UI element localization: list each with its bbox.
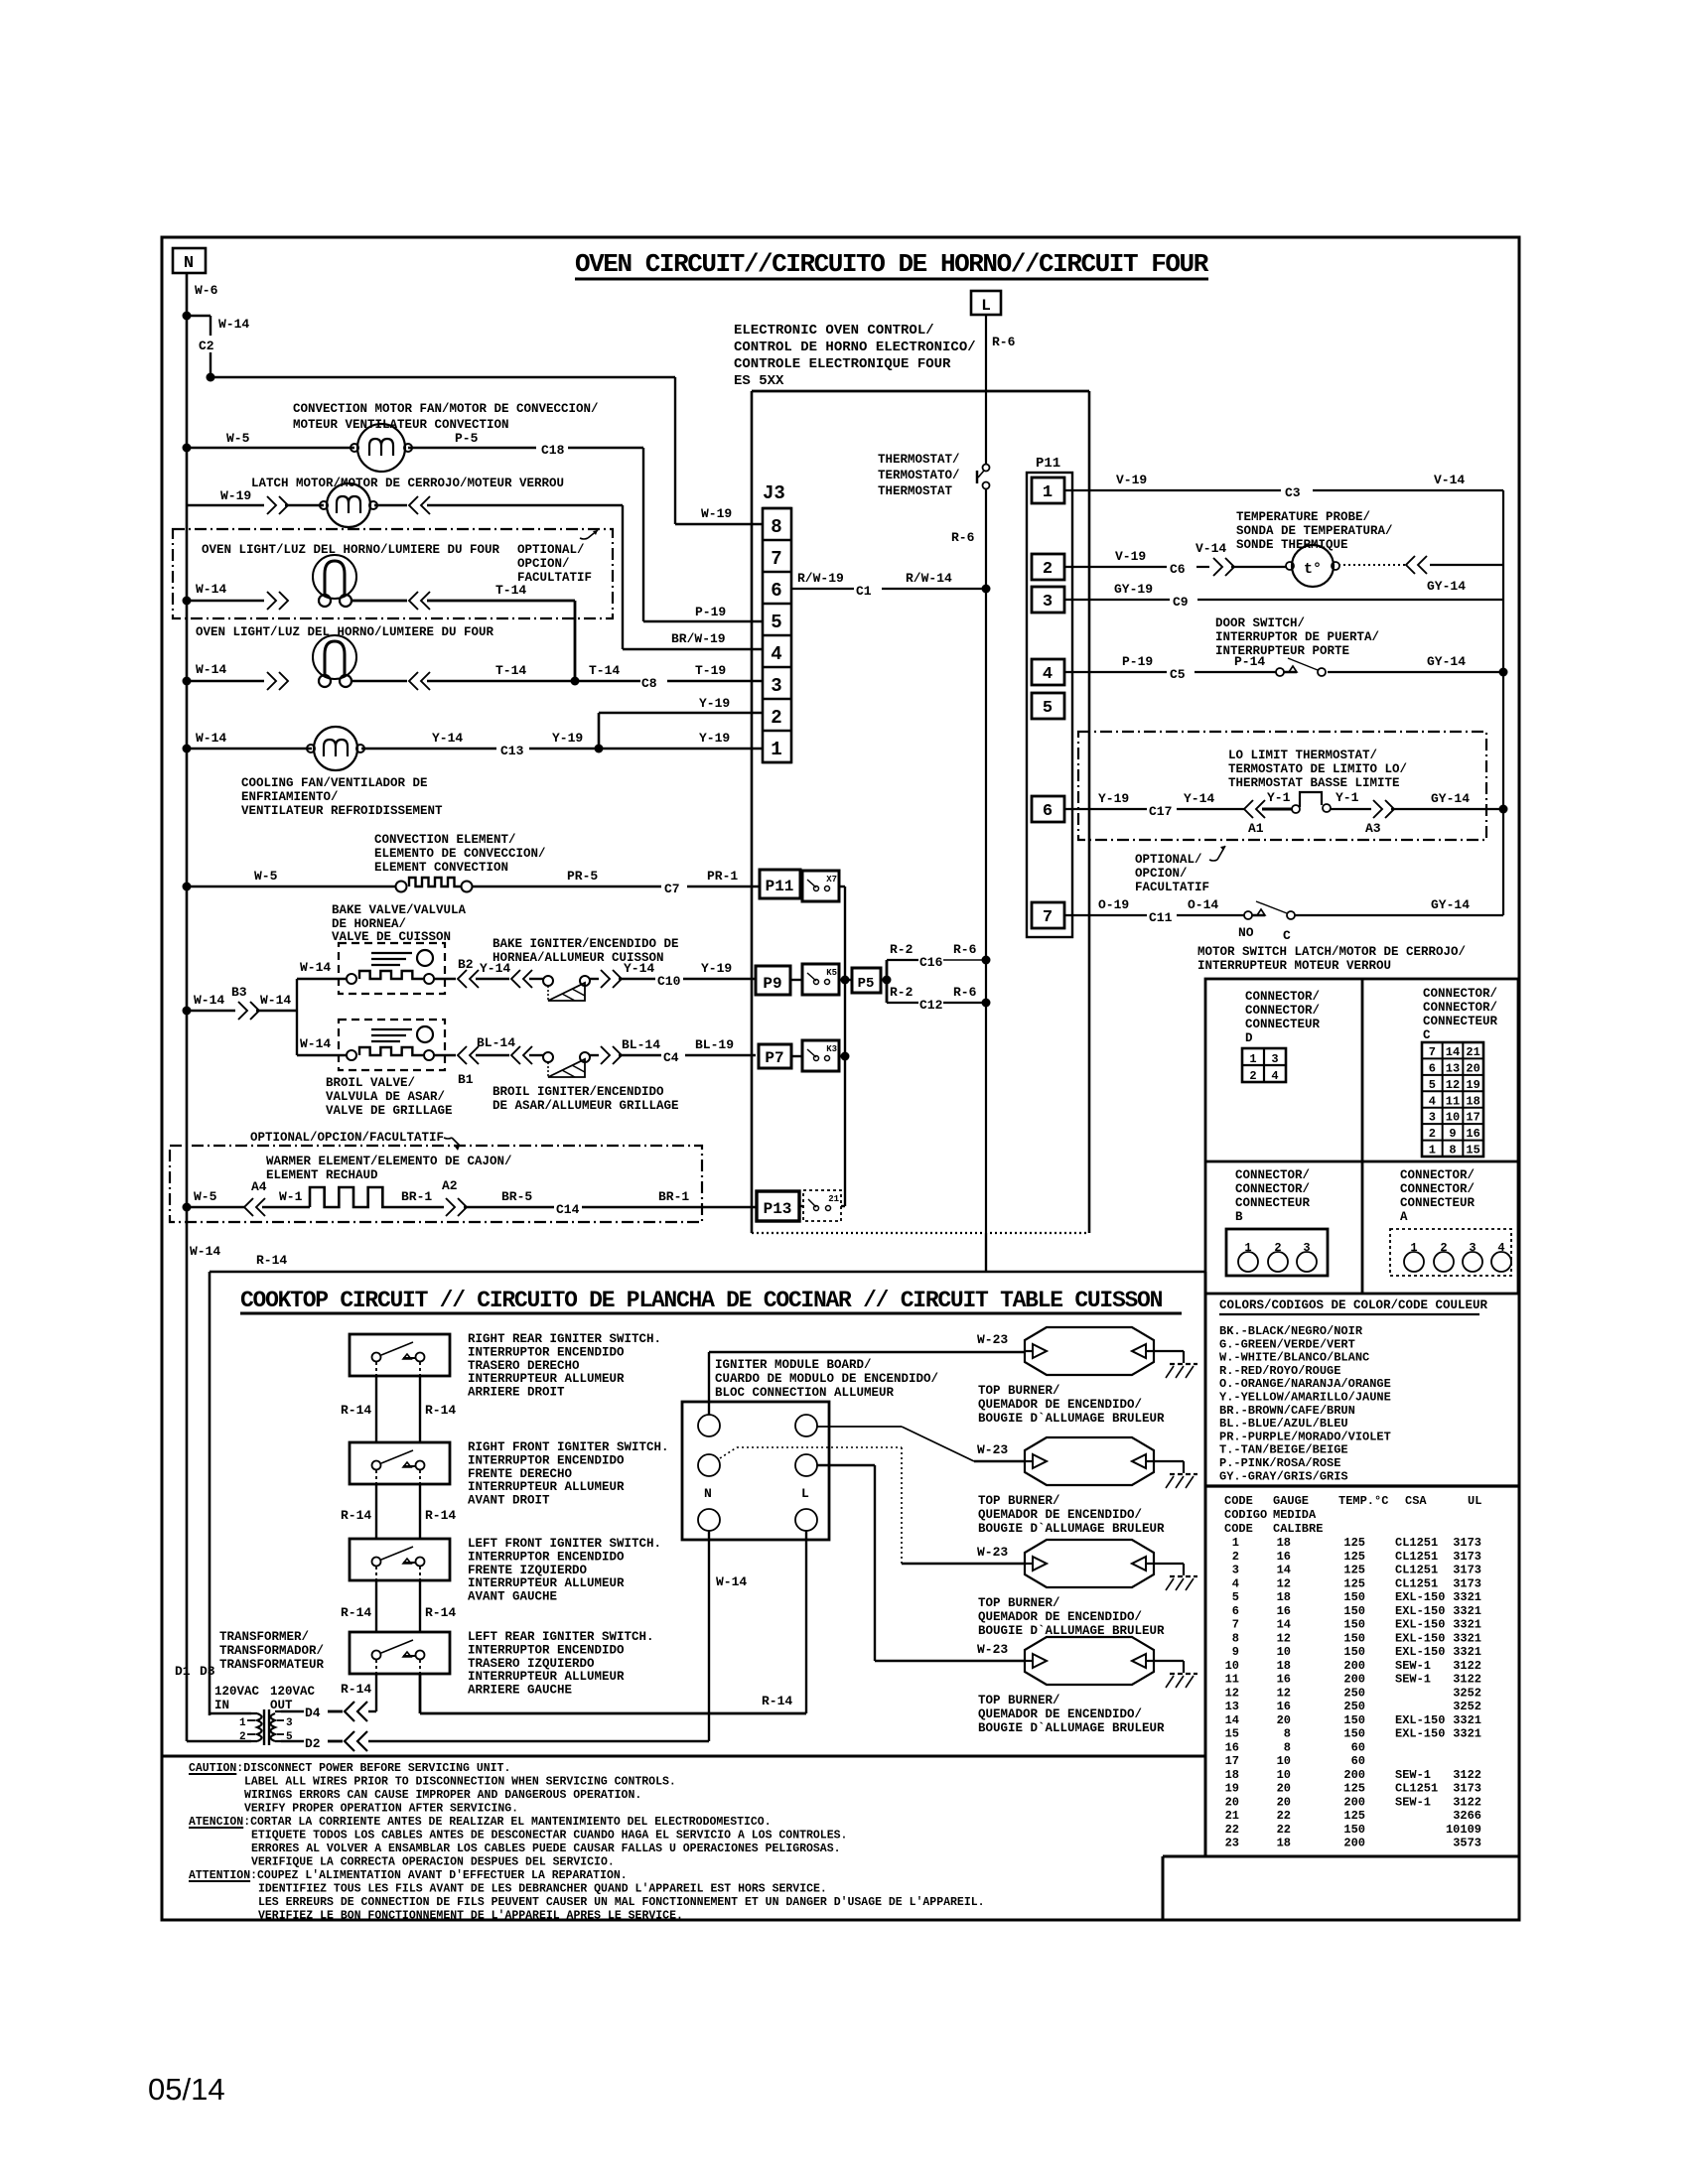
svg-text:3122: 3122 bbox=[1453, 1673, 1481, 1687]
svg-text:16: 16 bbox=[1277, 1673, 1291, 1687]
svg-text:200: 200 bbox=[1343, 1795, 1365, 1809]
label 05/14 bbox=[148, 2072, 225, 2107]
label V-19 pin1 bbox=[1116, 473, 1147, 487]
svg-text:C7: C7 bbox=[664, 882, 680, 896]
svg-text:6: 6 bbox=[1043, 802, 1053, 821]
caution notes bbox=[189, 1762, 985, 1923]
svg-text:QUEMADOR DE ENCENDIDO/: QUEMADOR DE ENCENDIDO/ bbox=[978, 1610, 1142, 1624]
svg-text:C1: C1 bbox=[856, 584, 872, 599]
label R-2 C12 bbox=[890, 985, 914, 1000]
label broil igniter bbox=[492, 1085, 679, 1113]
label C9 bbox=[1173, 595, 1189, 610]
label oven light 2 bbox=[196, 625, 494, 639]
label P-19 at J3 pin5 bbox=[695, 605, 726, 619]
wire to broil valve bbox=[297, 1054, 347, 1056]
wire P-19 pin4 bbox=[1064, 671, 1276, 673]
svg-text:3173: 3173 bbox=[1453, 1576, 1481, 1590]
svg-text:2: 2 bbox=[771, 707, 781, 729]
conv element contact R bbox=[462, 882, 473, 892]
svg-text:TOP BURNER/: TOP BURNER/ bbox=[978, 1694, 1060, 1707]
svg-text:W-14: W-14 bbox=[218, 317, 249, 332]
svg-text:EXL-150: EXL-150 bbox=[1395, 1618, 1445, 1632]
wire PR-1 to P11 bbox=[687, 886, 760, 887]
wire probe return bbox=[1502, 490, 1504, 915]
svg-text:EXL-150: EXL-150 bbox=[1395, 1645, 1445, 1659]
svg-text:C8: C8 bbox=[641, 676, 657, 691]
svg-text:3321: 3321 bbox=[1453, 1618, 1481, 1632]
convection element R1 bbox=[409, 878, 461, 887]
wire gauge table bbox=[1224, 1494, 1481, 1850]
wire D4 to rail bbox=[368, 1710, 376, 1712]
svg-text:3122: 3122 bbox=[1453, 1659, 1481, 1673]
relay 21 bbox=[803, 1190, 841, 1221]
colors box divider bbox=[1205, 1484, 1518, 1487]
label A3 bbox=[1365, 821, 1381, 836]
svg-text:A2: A2 bbox=[442, 1178, 458, 1193]
svg-text:WARMER ELEMENT/ELEMENTO DE CAJ: WARMER ELEMENT/ELEMENTO DE CAJON/ bbox=[266, 1155, 512, 1168]
svg-text:ERRORES AL VOLVER A ENSAMBLAR: ERRORES AL VOLVER A ENSAMBLAR LOS CABLES… bbox=[251, 1843, 841, 1855]
label top burner 3 bbox=[978, 1596, 1165, 1638]
label tap 1 bbox=[239, 1717, 246, 1729]
svg-text:D4: D4 bbox=[305, 1706, 321, 1720]
svg-text:13: 13 bbox=[1446, 1061, 1460, 1075]
wire W-5 fan bbox=[187, 447, 354, 449]
connector broil 3 bbox=[601, 1046, 622, 1064]
svg-text:4: 4 bbox=[1232, 1576, 1239, 1590]
wire lo-limit out bbox=[1331, 808, 1371, 810]
svg-text:BROIL VALVE/: BROIL VALVE/ bbox=[326, 1076, 415, 1090]
svg-text:15: 15 bbox=[1225, 1727, 1239, 1741]
wire Y-19 to J3 pin1 bbox=[599, 748, 763, 750]
svg-text:EXL-150: EXL-150 bbox=[1395, 1727, 1445, 1741]
svg-text:14: 14 bbox=[1225, 1713, 1239, 1727]
svg-text:OVEN CIRCUIT//CIRCUITO DE HORN: OVEN CIRCUIT//CIRCUITO DE HORNO//CIRCUIT… bbox=[575, 249, 1209, 279]
label B1 bbox=[458, 1072, 474, 1087]
svg-text:150: 150 bbox=[1343, 1590, 1365, 1604]
junction P5 out bbox=[883, 976, 892, 985]
label D4 bbox=[305, 1706, 321, 1720]
label O-14 bbox=[1188, 897, 1218, 912]
connector D grid bbox=[1242, 1048, 1286, 1083]
label W-19 at J3 pin8 bbox=[701, 506, 732, 521]
module pin L bbox=[795, 1509, 817, 1531]
svg-text:6: 6 bbox=[1232, 1604, 1239, 1618]
svg-text:20: 20 bbox=[1225, 1795, 1239, 1809]
svg-text:23: 23 bbox=[1225, 1837, 1239, 1850]
title OVEN CIRCUIT bbox=[575, 249, 1209, 279]
label GY-14 pin7 bbox=[1431, 897, 1470, 912]
wire W-14 light1 bbox=[187, 600, 264, 602]
svg-text:ELEMENT RECHAUD: ELEMENT RECHAUD bbox=[266, 1168, 378, 1182]
svg-text:INTERRUPTEUR ALLUMEUR: INTERRUPTEUR ALLUMEUR bbox=[468, 1372, 625, 1386]
svg-text:IDENTIFIEZ TOUS LES FILS AVANT: IDENTIFIEZ TOUS LES FILS AVANT DE LES DE… bbox=[258, 1883, 827, 1896]
svg-text:R-6: R-6 bbox=[953, 985, 977, 1000]
junction light2 bbox=[183, 677, 192, 686]
svg-text:INTERRUPTEUR ALLUMEUR: INTERRUPTEUR ALLUMEUR bbox=[468, 1480, 625, 1494]
svg-text:EXL-150: EXL-150 bbox=[1395, 1631, 1445, 1645]
connector probe right bbox=[1406, 556, 1427, 574]
svg-text:VERIFIEZ LE BON FONCTIONNEMENT: VERIFIEZ LE BON FONCTIONNEMENT DE L'APPA… bbox=[258, 1910, 683, 1923]
wire C13 bbox=[529, 748, 599, 750]
junction light1 bbox=[183, 597, 192, 606]
svg-text:PR-5: PR-5 bbox=[567, 869, 598, 884]
junction cooling bbox=[183, 745, 192, 753]
label GY-14 pin3 bbox=[1427, 579, 1466, 594]
P11 pin 2 box bbox=[1032, 554, 1064, 580]
wire P7-K3 bbox=[791, 1055, 802, 1057]
svg-text:PR-1: PR-1 bbox=[707, 869, 738, 884]
wire Y-14 cooling bbox=[361, 748, 496, 750]
svg-text:18: 18 bbox=[1466, 1094, 1479, 1108]
connector warmer out bbox=[446, 1198, 467, 1216]
warmer element R2 bbox=[310, 1187, 397, 1207]
svg-text:W-14: W-14 bbox=[716, 1574, 747, 1589]
svg-text:R/W-19: R/W-19 bbox=[797, 571, 844, 586]
svg-text:MEDIDA: MEDIDA bbox=[1273, 1508, 1317, 1522]
svg-text:1: 1 bbox=[1043, 483, 1053, 502]
svg-text:L: L bbox=[981, 297, 991, 315]
label C8 bbox=[641, 676, 657, 691]
label connector D bbox=[1245, 990, 1321, 1045]
label temperature probe bbox=[1236, 510, 1393, 552]
label Y-14 bake r bbox=[624, 961, 654, 976]
svg-text:P-5: P-5 bbox=[455, 431, 479, 446]
svg-text:125: 125 bbox=[1343, 1564, 1365, 1577]
svg-text:120VAC: 120VAC bbox=[270, 1685, 316, 1699]
label V-14 probe bbox=[1196, 541, 1226, 556]
svg-text:150: 150 bbox=[1343, 1727, 1365, 1741]
label C13 bbox=[500, 744, 524, 758]
svg-text:CONVECTION MOTOR FAN/MOTOR DE: CONVECTION MOTOR FAN/MOTOR DE CONVECCION… bbox=[293, 402, 599, 416]
svg-text:TRASERO DERECHO: TRASERO DERECHO bbox=[468, 1359, 580, 1373]
svg-text:C16: C16 bbox=[919, 955, 943, 970]
label GY-19 bbox=[1114, 582, 1153, 597]
connector A pins bbox=[1390, 1229, 1511, 1276]
svg-text:RIGHT FRONT IGNITER SWITCH.: RIGHT FRONT IGNITER SWITCH. bbox=[468, 1440, 669, 1454]
label oven light 1 bbox=[202, 543, 500, 557]
svg-text:t°: t° bbox=[1304, 561, 1322, 578]
connector warmer in bbox=[244, 1198, 265, 1216]
label motor switch latch bbox=[1197, 945, 1466, 973]
label bake igniter bbox=[492, 937, 679, 965]
connector D2 bbox=[345, 1731, 367, 1751]
label J3 bbox=[763, 482, 785, 504]
wire probe dotted bbox=[1338, 564, 1406, 566]
wire P13-21 bbox=[799, 1205, 803, 1207]
bottom-right box top edge bbox=[1163, 1855, 1518, 1858]
svg-text:SEW-1: SEW-1 bbox=[1395, 1795, 1431, 1809]
svg-text:3: 3 bbox=[1232, 1564, 1239, 1577]
temperature probe T1 bbox=[1286, 545, 1339, 587]
label thermostat bbox=[878, 453, 960, 498]
label W-5 fan bbox=[226, 431, 250, 446]
svg-text:C6: C6 bbox=[1170, 562, 1186, 577]
svg-text:DE HORNEA/: DE HORNEA/ bbox=[332, 917, 406, 931]
svg-text:W-5: W-5 bbox=[194, 1189, 217, 1204]
svg-text:BR-1: BR-1 bbox=[658, 1189, 689, 1204]
wire Y-14 C10 bbox=[619, 978, 756, 980]
wire D2 bbox=[281, 1740, 343, 1742]
svg-text:R-6: R-6 bbox=[992, 335, 1016, 349]
svg-text:FACULTATIF: FACULTATIF bbox=[1135, 881, 1209, 894]
wire R-6 from L bbox=[985, 315, 987, 464]
svg-text:R/W-14: R/W-14 bbox=[906, 571, 952, 586]
svg-text:2: 2 bbox=[1232, 1550, 1239, 1564]
svg-text:CONTROL DE HORNO ELECTRONICO/: CONTROL DE HORNO ELECTRONICO/ bbox=[734, 340, 976, 355]
label C1 bbox=[856, 584, 872, 599]
label C5 bbox=[1170, 667, 1186, 682]
svg-text:C4: C4 bbox=[663, 1050, 679, 1065]
svg-text:GY-14: GY-14 bbox=[1427, 654, 1466, 669]
label R-14 a1 bbox=[341, 1403, 371, 1418]
svg-text:P7: P7 bbox=[765, 1049, 783, 1067]
P11 pin 1 box bbox=[1032, 478, 1064, 503]
svg-text:150: 150 bbox=[1343, 1823, 1365, 1837]
svg-text:C10: C10 bbox=[657, 974, 681, 989]
svg-text:14: 14 bbox=[1277, 1564, 1291, 1577]
EOC box outline bbox=[752, 391, 1089, 1233]
igniter switch right rear igniter switch S4 bbox=[350, 1334, 450, 1376]
svg-text:05/14: 05/14 bbox=[148, 2072, 225, 2107]
P5 plug box bbox=[852, 968, 881, 993]
svg-text:UL: UL bbox=[1468, 1494, 1481, 1508]
broil valve element bbox=[347, 1047, 434, 1060]
label BR/W-19 at J3 pin4 bbox=[671, 631, 726, 646]
svg-text:200: 200 bbox=[1343, 1659, 1365, 1673]
svg-text:120VAC: 120VAC bbox=[214, 1685, 260, 1699]
svg-text:3321: 3321 bbox=[1453, 1631, 1481, 1645]
junction conv element bbox=[183, 883, 192, 891]
wire W-14 light2 bbox=[187, 680, 264, 682]
svg-text:20: 20 bbox=[1466, 1061, 1479, 1075]
svg-text:12: 12 bbox=[1277, 1576, 1291, 1590]
svg-text:W-23: W-23 bbox=[977, 1442, 1008, 1457]
junction warmer bbox=[183, 1203, 192, 1212]
svg-text:150: 150 bbox=[1343, 1631, 1365, 1645]
label right front igniter switch S5 bbox=[468, 1440, 669, 1508]
label C6 bbox=[1170, 562, 1186, 577]
svg-text:5: 5 bbox=[1232, 1590, 1239, 1604]
svg-text:W-14: W-14 bbox=[196, 731, 226, 746]
label T-14 light2 bbox=[495, 663, 526, 678]
junction fan row bbox=[183, 444, 192, 453]
igniter switch left rear igniter switch S7 bbox=[350, 1632, 450, 1674]
svg-text:9: 9 bbox=[1449, 1127, 1456, 1141]
svg-text:CONNECTEUR: CONNECTEUR bbox=[1423, 1015, 1498, 1028]
P11 plug box bbox=[760, 870, 800, 898]
wire R-6 to cooktop bbox=[985, 1233, 987, 1272]
wire R-6 down bbox=[985, 489, 987, 1233]
wire K3 to bus bbox=[839, 1055, 845, 1057]
svg-text:R-14: R-14 bbox=[762, 1694, 792, 1708]
wire relay21 to bus bbox=[841, 1205, 845, 1207]
svg-text:W-5: W-5 bbox=[254, 869, 278, 884]
svg-text:P11: P11 bbox=[766, 878, 794, 895]
wire P9-K5 bbox=[790, 979, 802, 981]
connector latch in bbox=[267, 496, 288, 514]
svg-text:CALIBRE: CALIBRE bbox=[1273, 1522, 1323, 1536]
igniter switch left front igniter switch S6 bbox=[350, 1539, 450, 1580]
wire Y-19 to J3 pin2 bbox=[599, 713, 763, 749]
svg-text:22: 22 bbox=[1277, 1809, 1291, 1823]
optional box warmer bbox=[170, 1146, 702, 1222]
svg-text:SONDA DE TEMPERATURA/: SONDA DE TEMPERATURA/ bbox=[1236, 524, 1393, 538]
svg-text:GY.-GRAY/GRIS/GRIS: GY.-GRAY/GRIS/GRIS bbox=[1219, 1469, 1348, 1483]
wire D4 bbox=[281, 1710, 343, 1712]
squiggle warmer bbox=[444, 1138, 460, 1151]
svg-text:R-14: R-14 bbox=[256, 1253, 287, 1268]
svg-text:LEFT FRONT IGNITER SWITCH.: LEFT FRONT IGNITER SWITCH. bbox=[468, 1537, 661, 1551]
top burner 3 octagon bbox=[1025, 1540, 1154, 1587]
label W-23 burner 3 bbox=[977, 1545, 1008, 1560]
label connector A bbox=[1400, 1168, 1476, 1224]
svg-text:VALVULA DE ASAR/: VALVULA DE ASAR/ bbox=[326, 1090, 445, 1104]
wire R/W-19 C1 from J3 pin6 bbox=[791, 588, 986, 590]
svg-text:ES 5XX: ES 5XX bbox=[734, 373, 784, 389]
svg-text:INTERRUPTEUR MOTEUR VERROU: INTERRUPTEUR MOTEUR VERROU bbox=[1197, 959, 1391, 973]
svg-text:18: 18 bbox=[1277, 1590, 1291, 1604]
label transformer bbox=[219, 1630, 325, 1672]
motor latch switch S3 bbox=[1244, 901, 1295, 919]
svg-text:3321: 3321 bbox=[1453, 1645, 1481, 1659]
P11 pin 7 box bbox=[1032, 902, 1064, 928]
svg-text:DE ASAR/ALLUMEUR GRILLAGE: DE ASAR/ALLUMEUR GRILLAGE bbox=[492, 1099, 679, 1113]
label W-14 light1 bbox=[196, 582, 226, 597]
svg-text:GY-14: GY-14 bbox=[1431, 897, 1470, 912]
svg-text:8: 8 bbox=[1284, 1740, 1291, 1754]
svg-text:LO LIMIT THERMOSTAT/: LO LIMIT THERMOSTAT/ bbox=[1228, 749, 1377, 762]
igniter switch right front igniter switch S5 bbox=[350, 1442, 450, 1484]
connector B pins bbox=[1226, 1229, 1328, 1276]
connector light2 out bbox=[409, 672, 430, 690]
label D3 bbox=[200, 1664, 215, 1679]
svg-text:21: 21 bbox=[828, 1194, 839, 1204]
label R-6 top bbox=[992, 335, 1016, 349]
svg-text:T-14: T-14 bbox=[495, 663, 526, 678]
label W-14 left low bbox=[190, 1244, 220, 1259]
svg-text:THERMOSTAT/: THERMOSTAT/ bbox=[878, 453, 960, 467]
svg-text:Y-19: Y-19 bbox=[1098, 791, 1129, 806]
svg-text:CL1251: CL1251 bbox=[1395, 1576, 1438, 1590]
svg-text:10: 10 bbox=[1277, 1768, 1291, 1782]
svg-text:60: 60 bbox=[1351, 1740, 1365, 1754]
svg-text:8: 8 bbox=[1449, 1144, 1456, 1158]
wire D3 to transformer bbox=[210, 1712, 251, 1714]
svg-text:R-14: R-14 bbox=[341, 1682, 371, 1697]
svg-text:ETIQUETE TODOS LOS CABLES ANTE: ETIQUETE TODOS LOS CABLES ANTES DE DESCO… bbox=[251, 1830, 847, 1843]
svg-text:QUEMADOR DE ENCENDIDO/: QUEMADOR DE ENCENDIDO/ bbox=[978, 1707, 1142, 1721]
junction C2 corner bbox=[207, 373, 215, 382]
svg-text:G.-GREEN/VERDE/VERT: G.-GREEN/VERDE/VERT bbox=[1219, 1337, 1355, 1351]
svg-text:16: 16 bbox=[1277, 1700, 1291, 1713]
svg-text:P-14: P-14 bbox=[1234, 654, 1265, 669]
svg-text:12: 12 bbox=[1225, 1686, 1239, 1700]
svg-text:TRASERO IZQUIERDO: TRASERO IZQUIERDO bbox=[468, 1657, 595, 1671]
label R-14 near L bbox=[762, 1694, 792, 1708]
svg-text:R-14: R-14 bbox=[341, 1605, 371, 1620]
svg-text:7: 7 bbox=[1232, 1618, 1239, 1632]
svg-text:GY-14: GY-14 bbox=[1431, 791, 1470, 806]
connector bake 1 bbox=[458, 970, 479, 988]
wire N rail W-6 bbox=[186, 273, 189, 1741]
svg-text:BR-5: BR-5 bbox=[501, 1189, 532, 1204]
P9 plug box bbox=[756, 966, 790, 995]
wire W-14 B3 bbox=[187, 1010, 235, 1012]
svg-text:ELECTRONIC OVEN CONTROL/: ELECTRONIC OVEN CONTROL/ bbox=[734, 323, 934, 339]
bake valve V1 bbox=[339, 943, 445, 994]
svg-text:VERIFY PROPER OPERATION AFTER: VERIFY PROPER OPERATION AFTER SERVICING. bbox=[244, 1803, 518, 1816]
connector broil 1 bbox=[458, 1046, 479, 1064]
oven light bulb 2 bbox=[313, 635, 356, 687]
svg-text:TRANSFORMADOR/: TRANSFORMADOR/ bbox=[219, 1644, 324, 1658]
label colors header bbox=[1219, 1298, 1488, 1314]
svg-text:R-14: R-14 bbox=[425, 1605, 456, 1620]
svg-text:Y-14: Y-14 bbox=[432, 731, 463, 746]
label BR-1 right bbox=[658, 1189, 689, 1204]
label right rear igniter switch S4 bbox=[468, 1332, 661, 1400]
label R-14 b2 bbox=[425, 1508, 456, 1523]
svg-text:19: 19 bbox=[1225, 1782, 1239, 1796]
label Y-14 bake l bbox=[480, 961, 510, 976]
label C3 bbox=[1285, 485, 1301, 500]
svg-text:BAKE IGNITER/ENCENDIDO DE: BAKE IGNITER/ENCENDIDO DE bbox=[492, 937, 679, 951]
svg-text:1: 1 bbox=[1232, 1536, 1239, 1550]
label top burner 4 bbox=[978, 1694, 1165, 1735]
svg-text:VERIFIQUE LA CORRECTA OPERACIO: VERIFIQUE LA CORRECTA OPERACION DESPUES … bbox=[251, 1856, 615, 1869]
svg-text:P9: P9 bbox=[763, 975, 781, 993]
svg-text:COLORS/CODIGOS DE COLOR/CODE C: COLORS/CODIGOS DE COLOR/CODE COULEUR bbox=[1219, 1298, 1488, 1312]
label broil valve bbox=[326, 1076, 453, 1118]
svg-text:CODIGO: CODIGO bbox=[1224, 1508, 1267, 1522]
svg-text:W-14: W-14 bbox=[300, 960, 331, 975]
svg-text:W-5: W-5 bbox=[226, 431, 250, 446]
label R-6 mid bbox=[951, 530, 975, 545]
svg-text:V-14: V-14 bbox=[1196, 541, 1226, 556]
label latch motor bbox=[251, 477, 564, 490]
cooling fan motor M3 bbox=[307, 727, 364, 770]
svg-text:Y-14: Y-14 bbox=[1184, 791, 1214, 806]
cooktop circuit box bbox=[210, 1272, 1205, 1756]
svg-text:CSA: CSA bbox=[1405, 1494, 1427, 1508]
svg-text:1: 1 bbox=[1249, 1052, 1256, 1066]
label convection motor fan bbox=[293, 402, 599, 432]
svg-text:3122: 3122 bbox=[1453, 1795, 1481, 1809]
svg-text:10: 10 bbox=[1225, 1659, 1239, 1673]
label convection element bbox=[374, 833, 546, 875]
svg-text:BL.-BLUE/AZUL/BLEU: BL.-BLUE/AZUL/BLEU bbox=[1219, 1417, 1348, 1431]
svg-text:3321: 3321 bbox=[1453, 1604, 1481, 1618]
svg-text:W-14: W-14 bbox=[260, 993, 291, 1008]
svg-text:A3: A3 bbox=[1365, 821, 1381, 836]
label C2 bbox=[199, 339, 214, 353]
label A4 bbox=[251, 1179, 267, 1194]
svg-text:DOOR SWITCH/: DOOR SWITCH/ bbox=[1215, 616, 1305, 630]
svg-text:V-14: V-14 bbox=[1434, 473, 1465, 487]
svg-text:OVEN LIGHT/LUZ DEL HORNO/LUMIE: OVEN LIGHT/LUZ DEL HORNO/LUMIERE DU FOUR bbox=[202, 543, 500, 557]
transformer T2 coils bbox=[247, 1709, 284, 1745]
label W-5 warmer bbox=[194, 1189, 217, 1204]
bottom-right box left edge bbox=[1162, 1856, 1165, 1920]
svg-text:X7: X7 bbox=[826, 875, 837, 885]
svg-text:2: 2 bbox=[1249, 1069, 1256, 1083]
svg-text:EXL-150: EXL-150 bbox=[1395, 1604, 1445, 1618]
svg-text:3173: 3173 bbox=[1453, 1536, 1481, 1550]
wire broil ign out bbox=[590, 1054, 599, 1056]
svg-text:INTERRUPTOR DE PUERTA/: INTERRUPTOR DE PUERTA/ bbox=[1215, 630, 1379, 644]
svg-text:21: 21 bbox=[1225, 1809, 1239, 1823]
svg-text:PR.-PURPLE/MORADO/VIOLET: PR.-PURPLE/MORADO/VIOLET bbox=[1219, 1430, 1391, 1443]
svg-text:D1: D1 bbox=[175, 1664, 191, 1679]
